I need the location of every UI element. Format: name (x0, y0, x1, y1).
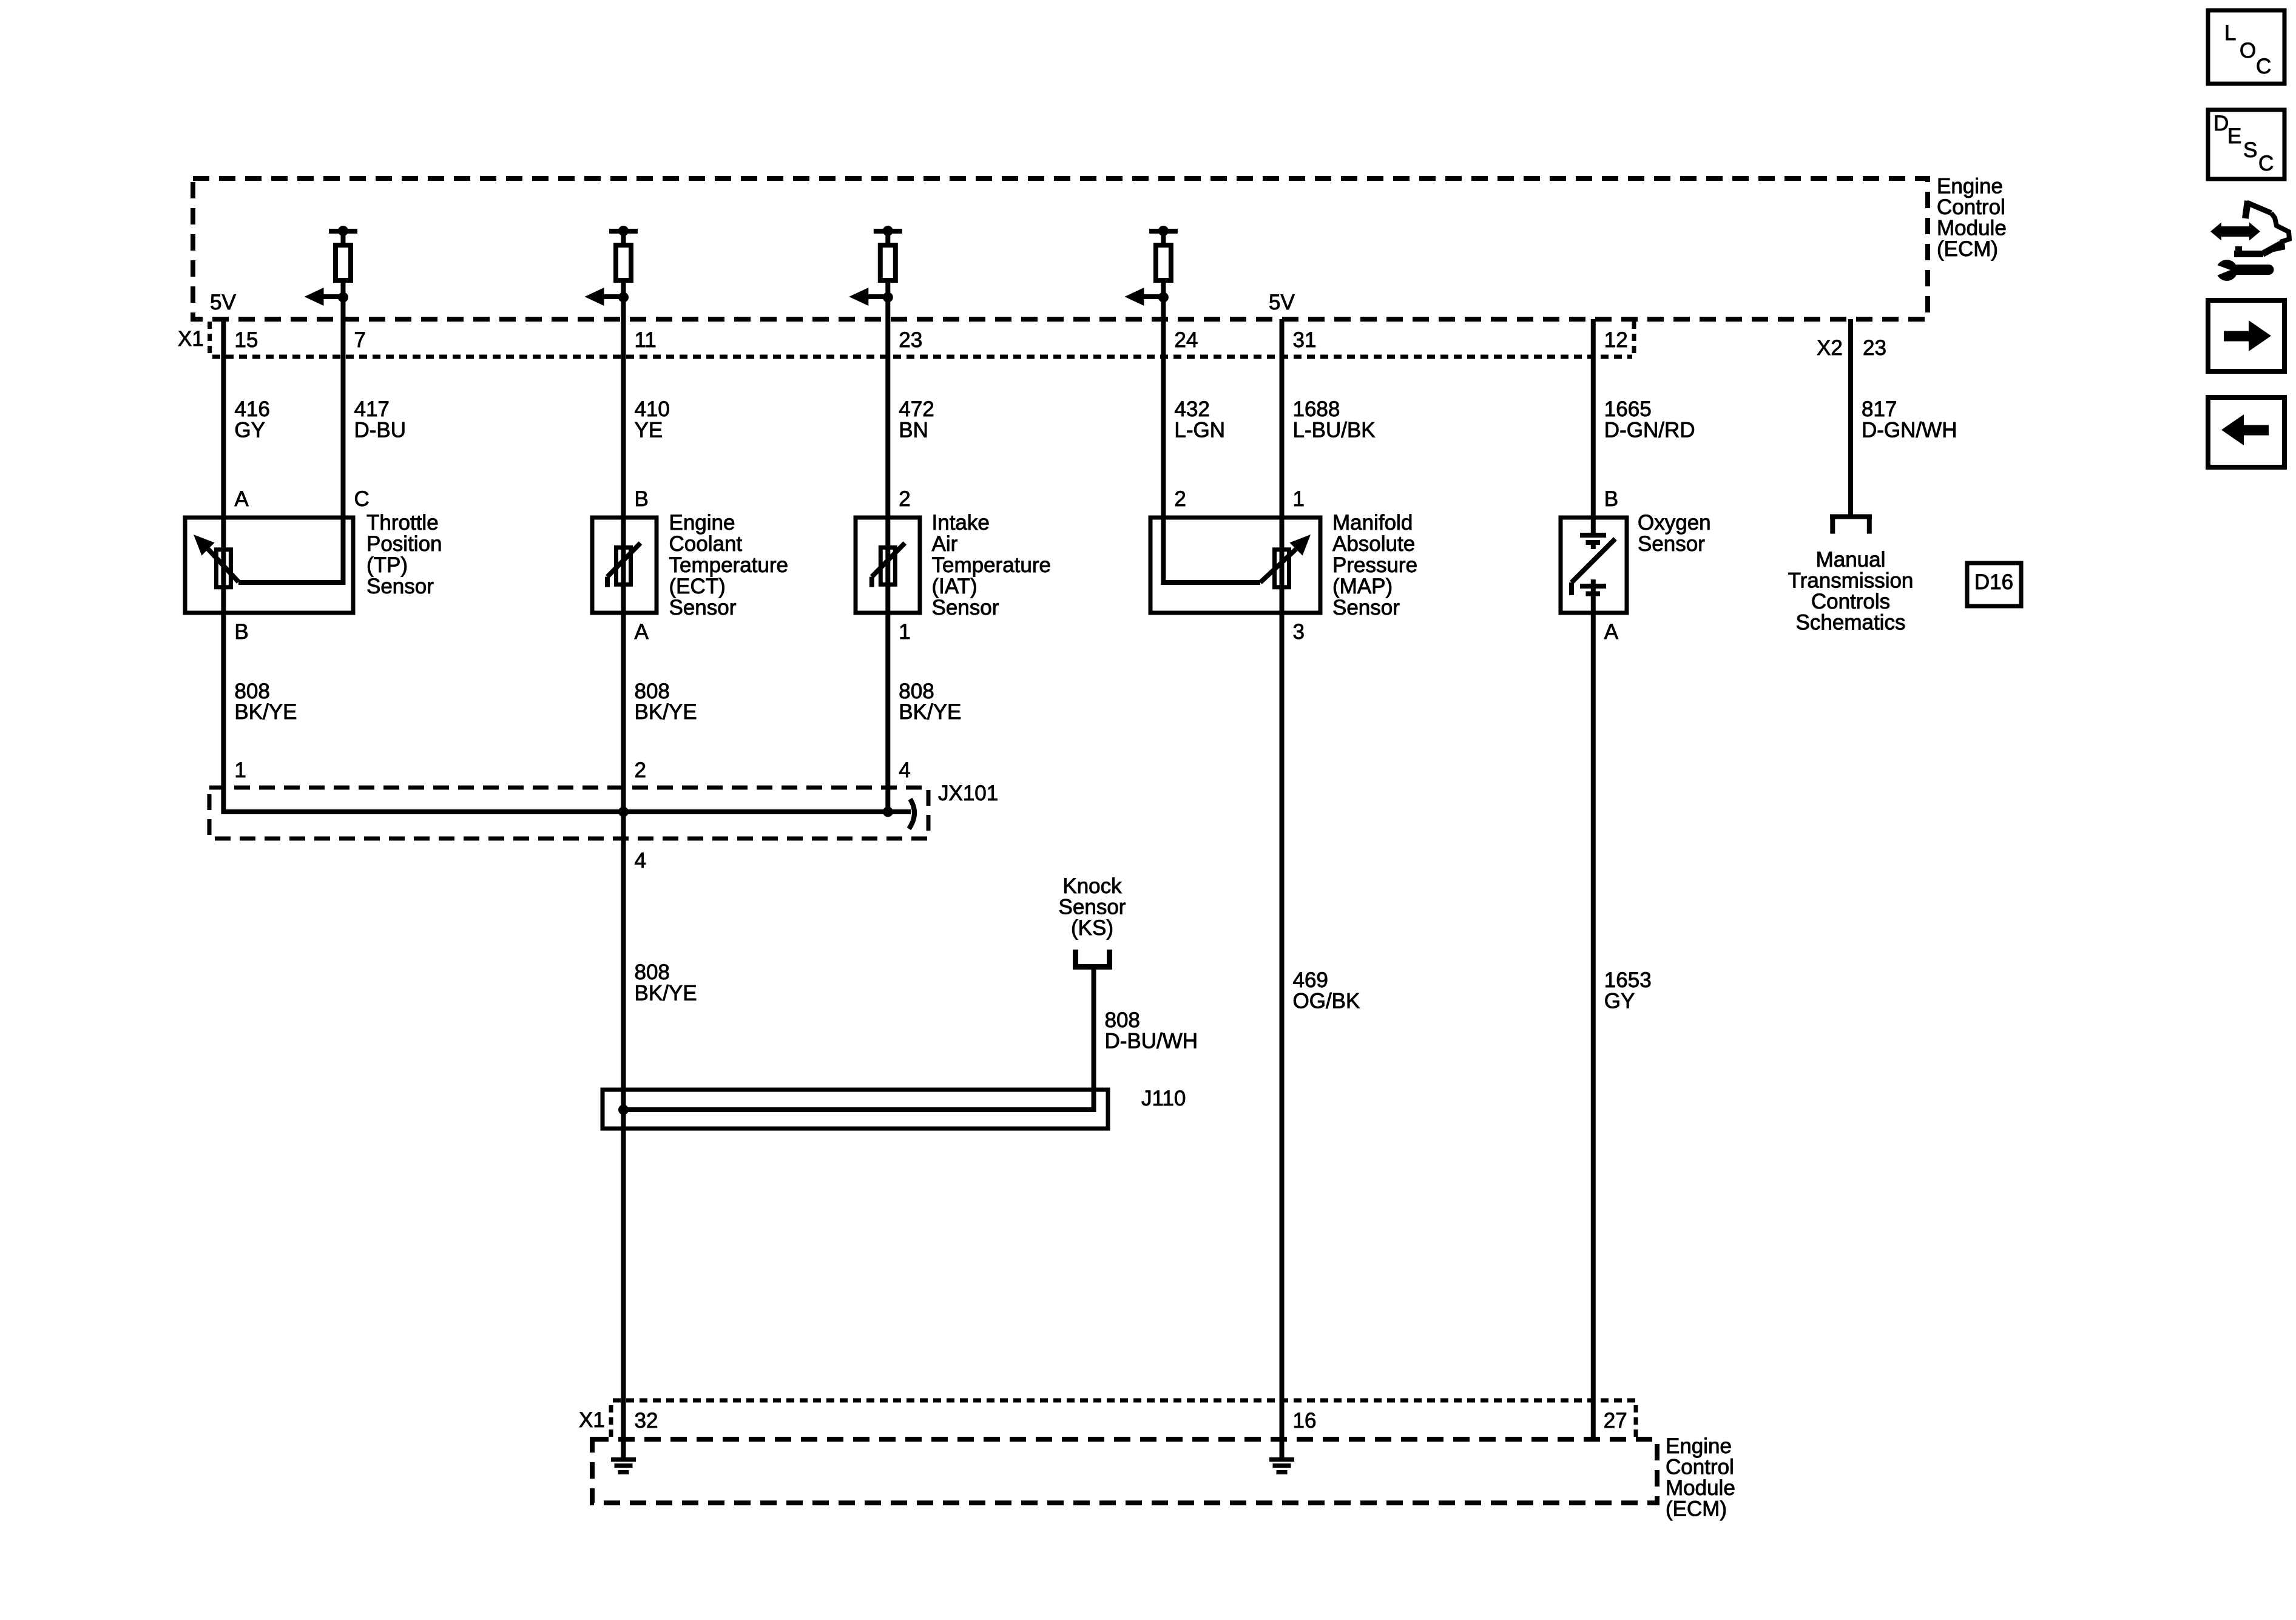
svg-text:417: 417 (354, 397, 390, 421)
svg-text:BK/YE: BK/YE (635, 982, 697, 1005)
svg-text:L: L (2224, 21, 2236, 45)
svg-text:2: 2 (899, 487, 910, 511)
svg-text:C: C (2256, 55, 2271, 78)
svg-text:Engine: Engine (1937, 175, 2003, 198)
svg-text:(ECM): (ECM) (1937, 237, 1998, 261)
svg-text:Coolant: Coolant (669, 532, 743, 556)
svg-text:32: 32 (635, 1409, 658, 1433)
svg-text:23: 23 (1863, 336, 1886, 360)
svg-text:JX101: JX101 (938, 781, 998, 805)
svg-text:469: 469 (1293, 968, 1328, 992)
svg-text:A: A (1604, 620, 1619, 644)
svg-text:C: C (2258, 152, 2274, 175)
svg-text:E: E (2227, 124, 2241, 148)
svg-text:Sensor: Sensor (1332, 596, 1400, 619)
svg-text:BK/YE: BK/YE (234, 700, 297, 724)
svg-text:X1: X1 (178, 327, 204, 351)
svg-text:Manual: Manual (1816, 548, 1886, 572)
svg-text:L-GN: L-GN (1174, 419, 1225, 442)
svg-text:Intake: Intake (932, 511, 990, 535)
svg-text:11: 11 (635, 328, 657, 352)
svg-text:(ECT): (ECT) (669, 575, 726, 598)
svg-text:Air: Air (932, 532, 958, 556)
svg-text:BN: BN (899, 419, 928, 442)
svg-text:YE: YE (635, 419, 663, 442)
svg-text:X2: X2 (1817, 336, 1843, 360)
svg-text:1: 1 (1293, 487, 1305, 511)
svg-text:16: 16 (1293, 1409, 1317, 1433)
svg-text:J110: J110 (1141, 1087, 1186, 1110)
svg-text:7: 7 (354, 328, 366, 352)
svg-text:D-BU: D-BU (354, 419, 407, 442)
svg-text:Absolute: Absolute (1332, 532, 1415, 556)
svg-text:L-BU/BK: L-BU/BK (1293, 419, 1376, 442)
svg-text:GY: GY (234, 419, 265, 442)
svg-text:(KS): (KS) (1071, 916, 1113, 940)
svg-text:5V: 5V (210, 291, 236, 314)
svg-text:D-BU/WH: D-BU/WH (1105, 1030, 1198, 1053)
svg-text:(ECM): (ECM) (1666, 1497, 1727, 1521)
svg-text:Temperature: Temperature (669, 553, 788, 577)
svg-text:B: B (234, 620, 248, 644)
svg-text:817: 817 (1862, 397, 1897, 421)
svg-text:(IAT): (IAT) (932, 575, 977, 598)
svg-text:BK/YE: BK/YE (635, 700, 697, 724)
svg-text:Schematics: Schematics (1796, 611, 1906, 635)
svg-text:OG/BK: OG/BK (1293, 990, 1360, 1013)
svg-text:2: 2 (635, 758, 646, 782)
svg-text:S: S (2243, 138, 2257, 162)
svg-text:A: A (635, 620, 649, 644)
svg-text:(MAP): (MAP) (1332, 575, 1393, 598)
svg-text:2: 2 (1174, 487, 1186, 511)
svg-text:1688: 1688 (1293, 397, 1340, 421)
svg-text:Position: Position (366, 532, 442, 556)
svg-text:Module: Module (1666, 1476, 1735, 1500)
svg-text:X1: X1 (579, 1408, 605, 1432)
svg-text:BK/YE: BK/YE (899, 700, 961, 724)
svg-text:Sensor: Sensor (932, 596, 999, 619)
svg-text:Controls: Controls (1811, 590, 1890, 613)
svg-text:808: 808 (1105, 1008, 1140, 1032)
svg-text:Engine: Engine (669, 511, 735, 535)
svg-text:O: O (2240, 39, 2256, 62)
svg-text:D-GN/RD: D-GN/RD (1604, 419, 1695, 442)
svg-text:Oxygen: Oxygen (1638, 511, 1711, 535)
svg-text:Control: Control (1937, 195, 2005, 219)
svg-text:432: 432 (1174, 397, 1209, 421)
svg-text:Transmission: Transmission (1788, 569, 1914, 593)
svg-text:D-GN/WH: D-GN/WH (1862, 419, 1957, 442)
svg-text:Module: Module (1937, 217, 2007, 240)
svg-text:4: 4 (635, 849, 646, 872)
svg-text:Sensor: Sensor (1059, 896, 1126, 919)
svg-text:3: 3 (1293, 620, 1305, 644)
svg-text:Sensor: Sensor (1638, 532, 1705, 556)
svg-text:410: 410 (635, 397, 670, 421)
svg-text:Sensor: Sensor (366, 575, 434, 598)
svg-text:1: 1 (899, 620, 910, 644)
svg-text:5V: 5V (1269, 291, 1295, 314)
svg-text:Temperature: Temperature (932, 553, 1051, 577)
svg-text:Pressure: Pressure (1332, 553, 1417, 577)
svg-text:Throttle: Throttle (366, 511, 439, 535)
svg-text:12: 12 (1604, 328, 1628, 352)
svg-text:D: D (2213, 112, 2229, 135)
svg-text:472: 472 (899, 397, 934, 421)
svg-text:4: 4 (899, 758, 910, 782)
svg-text:GY: GY (1604, 990, 1635, 1013)
svg-text:Knock: Knock (1062, 874, 1122, 898)
svg-text:1653: 1653 (1604, 968, 1652, 992)
svg-text:B: B (1604, 487, 1618, 511)
svg-text:Engine: Engine (1666, 1434, 1732, 1458)
svg-text:Control: Control (1666, 1456, 1734, 1479)
svg-text:24: 24 (1174, 328, 1198, 352)
svg-text:Manifold: Manifold (1332, 511, 1413, 535)
svg-text:C: C (354, 487, 370, 511)
svg-text:31: 31 (1293, 328, 1317, 352)
svg-text:B: B (635, 487, 649, 511)
svg-text:D16: D16 (1974, 570, 2013, 594)
svg-text:A: A (234, 487, 249, 511)
svg-text:808: 808 (635, 960, 670, 984)
svg-text:15: 15 (234, 328, 258, 352)
svg-text:1665: 1665 (1604, 397, 1652, 421)
svg-text:1: 1 (234, 758, 246, 782)
svg-text:Sensor: Sensor (669, 596, 737, 619)
svg-text:27: 27 (1604, 1409, 1627, 1433)
svg-text:416: 416 (234, 397, 269, 421)
svg-text:(TP): (TP) (366, 553, 408, 577)
svg-text:23: 23 (899, 328, 922, 352)
